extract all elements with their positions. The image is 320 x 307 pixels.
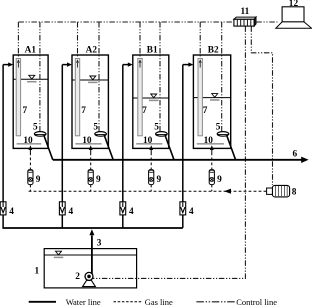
- rotameter 9 of A2: [88, 170, 93, 185]
- tube 7 of B1: [138, 59, 142, 136]
- sparger 10 of B1: [136, 143, 162, 145]
- svg-text:4: 4: [129, 207, 134, 217]
- control drop to tube 7 of A2: [77, 22, 79, 59]
- reactor A2 vessel: [72, 55, 108, 148]
- sparger 10 of A1: [17, 143, 42, 145]
- computer 12: [276, 7, 312, 29]
- control line 11 to air pump 8: [251, 26, 272, 185]
- svg-text:10: 10: [82, 136, 92, 146]
- svg-text:9: 9: [157, 175, 162, 185]
- feed arrow into B2: [183, 64, 189, 66]
- gas pipe manifold to rotameter of B2: [211, 185, 213, 192]
- svg-text:5: 5: [154, 123, 159, 133]
- svg-text:5: 5: [216, 123, 221, 133]
- control drop to tube 7 of B2: [199, 22, 201, 59]
- control drop to probe 5 of B2: [221, 22, 223, 131]
- reactor A2 water surface line: [72, 79, 108, 81]
- svg-text:B2: B2: [208, 45, 219, 55]
- reactor A1 vessel: [13, 55, 48, 148]
- sparger 10 of A2: [75, 143, 101, 145]
- feed riser of A2: [61, 65, 63, 202]
- control bus top horizontal to controller 11: [18, 21, 233, 23]
- probe 5 of B1: [156, 132, 168, 137]
- svg-text:Control line: Control line: [236, 297, 277, 307]
- legend gas line sample: [114, 301, 143, 303]
- gas pipe rotameter to B1: [150, 153, 152, 170]
- tank water surface line: [44, 254, 136, 256]
- feed manifold line: [2, 227, 182, 229]
- control drop to tube 7 of B1: [139, 22, 141, 59]
- tube 7 of B2: [198, 59, 202, 136]
- feed arrow into A2: [62, 64, 67, 66]
- svg-text:3: 3: [97, 238, 102, 248]
- feed arrow into B1: [123, 64, 129, 66]
- gas pipe manifold to rotameter of B1: [150, 185, 152, 192]
- valve 4 of B2: [180, 202, 186, 215]
- svg-text:7: 7: [23, 106, 28, 116]
- svg-text:5: 5: [93, 123, 98, 133]
- valve 4 of A1: [0, 202, 6, 215]
- gas pipe manifold to rotameter of A1: [29, 185, 31, 192]
- svg-text:10: 10: [23, 136, 33, 146]
- feed riser 3 from tank: [91, 236, 93, 276]
- reactor A1 water level mark: [29, 75, 35, 79]
- valve-to-manifold pipe of A1: [2, 215, 4, 228]
- reactor B1 water level mark: [151, 94, 157, 98]
- reactor B2 water level mark: [212, 94, 218, 98]
- effluent line 6: [53, 159, 303, 161]
- sparger 10 of B2: [197, 143, 224, 145]
- gas pipe rotameter to A1: [29, 153, 31, 170]
- gas arrow into A1: [29, 150, 31, 153]
- svg-text:A2: A2: [86, 45, 98, 55]
- gas arrow into B1: [150, 150, 152, 153]
- reactor A2 water level mark: [90, 76, 96, 80]
- valve-to-manifold pipe of A2: [61, 215, 63, 228]
- legend water line sample: [29, 301, 56, 303]
- reactor A1 water surface line: [13, 78, 48, 80]
- drain diagonal from probe 5 of B2 to line 6: [227, 136, 236, 160]
- control drop to probe 5 of B1: [159, 22, 161, 131]
- svg-text:1: 1: [35, 267, 40, 277]
- svg-text:9: 9: [96, 175, 101, 185]
- drain diagonal from probe 5 of A1 to line 6: [44, 136, 53, 160]
- rotameter 9 of B2: [209, 170, 214, 185]
- valve-to-manifold pipe of B2: [182, 215, 184, 228]
- rotameter 9 of A1: [28, 170, 33, 185]
- svg-text:9: 9: [217, 175, 222, 185]
- svg-text:10: 10: [143, 136, 153, 146]
- valve 4 of B1: [120, 202, 126, 215]
- reactor B1 water surface line: [133, 97, 169, 99]
- gas manifold line: [29, 190, 267, 192]
- feed arrow into A1: [3, 64, 9, 66]
- feed riser of B2: [182, 65, 184, 202]
- pump 2 base: [83, 277, 96, 287]
- pump 2: [85, 272, 93, 280]
- svg-text:2: 2: [75, 272, 80, 282]
- probe 5 of A1: [34, 132, 46, 137]
- svg-text:7: 7: [142, 106, 147, 116]
- svg-text:6: 6: [293, 150, 298, 160]
- svg-text:5: 5: [33, 123, 38, 133]
- control drop to probe 5 of A1: [39, 22, 41, 131]
- reactor B1 vessel: [133, 55, 169, 148]
- svg-text:7: 7: [81, 106, 86, 116]
- valve 4 of A2: [59, 202, 65, 215]
- svg-text:8: 8: [292, 188, 297, 198]
- rotameter 9 of B1: [149, 170, 154, 185]
- valve-to-manifold pipe of B1: [122, 215, 124, 228]
- gas manifold arrow: [224, 189, 231, 194]
- gas pipe manifold to rotameter of A2: [90, 185, 92, 192]
- svg-text:Water line: Water line: [66, 297, 101, 307]
- reactor B2 water surface line: [193, 97, 230, 99]
- controller 11: [234, 17, 256, 26]
- drain diagonal from probe 5 of B1 to line 6: [165, 136, 174, 160]
- svg-text:7: 7: [203, 106, 208, 116]
- feed riser of A1: [2, 65, 4, 202]
- svg-text:12: 12: [289, 0, 299, 9]
- tank water level mark: [56, 251, 62, 255]
- svg-text:10: 10: [204, 136, 214, 146]
- gas arrow into B2: [211, 150, 213, 153]
- feed riser of B1: [122, 65, 124, 202]
- svg-text:4: 4: [69, 207, 74, 217]
- probe 5 of A2: [95, 132, 107, 137]
- gas arrow into A2: [90, 150, 92, 153]
- control drop to probe 5 of A2: [98, 22, 100, 131]
- control line 11 to pump 2: [93, 26, 246, 278]
- svg-text:4: 4: [189, 207, 194, 217]
- legend control line sample: [196, 301, 235, 303]
- svg-text:9: 9: [36, 175, 41, 185]
- control line stub controller 11 to computer 12: [256, 21, 277, 23]
- gas pipe rotameter to B2: [211, 153, 213, 170]
- gas pipe rotameter to A2: [90, 153, 92, 170]
- drain diagonal from probe 5 of A2 to line 6: [104, 136, 113, 160]
- svg-text:B1: B1: [147, 45, 158, 55]
- air pump 8: [267, 185, 290, 197]
- probe 5 of B2: [217, 132, 229, 137]
- tube 7 of A2: [75, 59, 79, 136]
- svg-text:Gas line: Gas line: [145, 297, 173, 307]
- svg-text:A1: A1: [25, 45, 37, 55]
- svg-text:4: 4: [9, 207, 14, 217]
- control drop to tube 7 of A1: [17, 22, 19, 59]
- tube 7 of A1: [16, 59, 20, 136]
- reactor B2 vessel: [193, 55, 230, 148]
- tank 1: [44, 249, 136, 288]
- svg-text:11: 11: [241, 7, 250, 17]
